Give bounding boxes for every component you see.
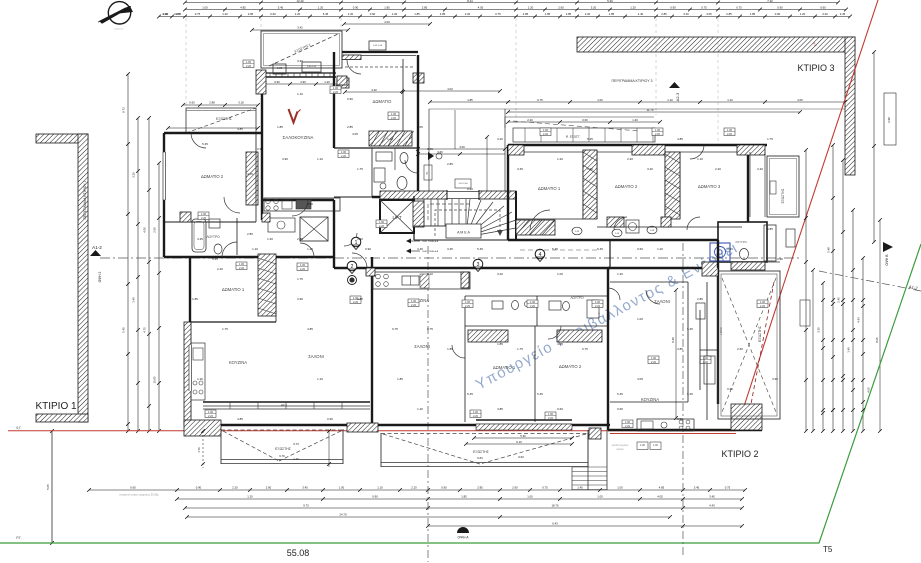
- svg-text:ΗΧ 1: ΗΧ 1: [281, 403, 288, 407]
- svg-text:2.20: 2.20: [208, 414, 214, 418]
- svg-text:1.00: 1.00: [597, 98, 603, 102]
- svg-text:0.75: 0.75: [725, 486, 731, 490]
- svg-text:1.00: 1.00: [625, 420, 631, 424]
- svg-text:5.45: 5.45: [597, 247, 603, 251]
- svg-text:2.20: 2.20: [411, 486, 417, 490]
- svg-text:4.03: 4.03: [447, 87, 453, 91]
- svg-text:LIFT: LIFT: [392, 215, 401, 220]
- svg-text:5.45: 5.45: [477, 247, 483, 251]
- svg-text:1.40: 1.40: [417, 407, 423, 411]
- svg-text:4.00: 4.00: [459, 145, 465, 149]
- svg-text:1.85: 1.85: [397, 377, 403, 381]
- svg-text:ΔΩΜΑΤΙΟ 1: ΔΩΜΑΤΙΟ 1: [222, 287, 245, 292]
- svg-text:2.20: 2.20: [465, 12, 471, 16]
- svg-text:5.45: 5.45: [202, 142, 208, 146]
- svg-text:1.05: 1.05: [640, 444, 645, 447]
- svg-text:1.00: 1.00: [239, 262, 245, 266]
- svg-text:5.45: 5.45: [278, 6, 284, 10]
- svg-text:0.60: 0.60: [270, 12, 276, 16]
- svg-text:5.45: 5.45: [617, 392, 623, 396]
- svg-text:1.85: 1.85: [384, 6, 390, 10]
- svg-text:0.90: 0.90: [163, 12, 169, 16]
- svg-text:2.60: 2.60: [153, 227, 157, 233]
- svg-text:3.45: 3.45: [709, 495, 715, 499]
- svg-text:2.85: 2.85: [247, 232, 253, 236]
- svg-text:4.85: 4.85: [357, 297, 363, 301]
- svg-text:0.75: 0.75: [542, 486, 548, 490]
- svg-text:ΔΩΜΑΤΙΟ 2: ΔΩΜΑΤΙΟ 2: [615, 184, 638, 189]
- svg-text:1.85: 1.85: [176, 12, 182, 16]
- svg-text:3.45: 3.45: [840, 12, 846, 16]
- svg-text:11.79: 11.79: [647, 108, 654, 112]
- svg-text:2.85: 2.85: [477, 486, 483, 490]
- svg-text:1.10: 1.10: [317, 377, 323, 381]
- svg-text:9.73: 9.73: [303, 504, 309, 508]
- svg-text:ΒΟΡΡΑΣ: ΒΟΡΡΑΣ: [114, 28, 124, 31]
- svg-text:είσοδος κλιμ/σιο: είσοδος κλιμ/σιο: [612, 444, 629, 447]
- svg-text:ΕΞΩΣΤΗΣ: ΕΞΩΣΤΗΣ: [758, 326, 762, 342]
- svg-text:ΕΞΩΣΤΗΣ: ΕΞΩΣΤΗΣ: [473, 450, 489, 454]
- svg-text:2.85: 2.85: [697, 297, 703, 301]
- svg-text:3.45: 3.45: [447, 247, 453, 251]
- svg-text:3.90: 3.90: [677, 417, 683, 421]
- svg-text:5.30: 5.30: [607, 0, 613, 3]
- svg-text:0.90: 0.90: [777, 6, 783, 10]
- svg-text:2.20: 2.20: [411, 303, 417, 307]
- svg-text:2.85: 2.85: [422, 6, 428, 10]
- svg-text:1.85: 1.85: [750, 12, 756, 16]
- svg-text:3.45: 3.45: [427, 147, 433, 151]
- svg-text:2.60: 2.60: [512, 486, 518, 490]
- svg-text:1.00: 1.00: [527, 495, 533, 499]
- svg-text:8.48: 8.48: [671, 337, 675, 343]
- svg-text:2.20: 2.20: [232, 486, 238, 490]
- svg-text:0.90: 0.90: [257, 147, 263, 151]
- svg-text:1.00: 1.00: [651, 356, 657, 360]
- svg-text:3.18: 3.18: [238, 101, 244, 105]
- svg-text:1.00: 1.00: [727, 128, 733, 132]
- svg-text:4.05: 4.05: [637, 377, 643, 381]
- svg-text:1.20: 1.20: [587, 167, 593, 171]
- svg-text:4.85: 4.85: [523, 12, 529, 16]
- svg-text:13.40: 13.40: [297, 0, 304, 3]
- svg-text:2.85: 2.85: [447, 162, 453, 166]
- svg-text:1.40: 1.40: [632, 118, 638, 122]
- svg-text:1.85: 1.85: [461, 495, 467, 499]
- svg-text:3.45: 3.45: [694, 486, 700, 490]
- svg-text:ΕΞΩΣΤΗΣ: ΕΞΩΣΤΗΣ: [275, 447, 291, 451]
- svg-text:4.85: 4.85: [497, 407, 503, 411]
- svg-text:3.20: 3.20: [683, 12, 689, 16]
- svg-text:0.60: 0.60: [637, 247, 643, 251]
- svg-text:1.00: 1.00: [246, 60, 252, 64]
- svg-text:1.20: 1.20: [630, 6, 636, 10]
- svg-text:Α Μ Ε Α: Α Μ Ε Α: [457, 231, 470, 235]
- svg-text:4.43: 4.43: [857, 317, 861, 323]
- svg-text:1.70: 1.70: [293, 457, 299, 461]
- svg-text:1.00: 1.00: [411, 299, 417, 303]
- svg-text:2.60: 2.60: [558, 6, 564, 10]
- svg-text:2.20: 2.20: [473, 414, 479, 418]
- svg-text:2.85: 2.85: [566, 12, 572, 16]
- svg-text:0.60: 0.60: [582, 118, 588, 122]
- svg-text:ΠΕΡΙΓΡΑΜΜΑ ΚΤΙΡΙΟΥ 1: ΠΕΡΙΓΡΑΜΜΑ ΚΤΙΡΙΟΥ 1: [83, 181, 87, 220]
- svg-text:4.43: 4.43: [709, 504, 715, 508]
- svg-text:2.20: 2.20: [217, 267, 223, 271]
- svg-text:1.00: 1.00: [543, 128, 549, 132]
- svg-text:10.85: 10.85: [153, 376, 157, 383]
- svg-text:1.85: 1.85: [277, 125, 283, 129]
- svg-text:1.05: 1.05: [277, 66, 283, 70]
- svg-text:0.60: 0.60: [370, 12, 376, 16]
- svg-text:1.00: 1.00: [557, 272, 563, 276]
- svg-text:0.90: 0.90: [670, 6, 676, 10]
- svg-text:1.20: 1.20: [324, 80, 330, 84]
- svg-text:2.20: 2.20: [595, 304, 601, 308]
- svg-text:24.70: 24.70: [340, 513, 347, 517]
- svg-text:0.60: 0.60: [727, 387, 733, 391]
- svg-text:ΔΩΜΑΤΙΟ 3: ΔΩΜΑΤΙΟ 3: [698, 184, 721, 189]
- svg-text:2.20: 2.20: [757, 167, 763, 171]
- svg-text:1.75: 1.75: [297, 277, 303, 281]
- svg-text:Ρ.Γ.: Ρ.Γ.: [16, 536, 21, 540]
- svg-text:8.05: 8.05: [875, 337, 879, 343]
- svg-text:ΟΨΗ 2: ΟΨΗ 2: [98, 272, 102, 283]
- svg-text:2.20: 2.20: [627, 157, 633, 161]
- svg-text:1.10: 1.10: [697, 157, 703, 161]
- svg-text:3.20: 3.20: [822, 12, 828, 16]
- svg-text:5.45: 5.45: [537, 392, 543, 396]
- svg-text:0.90: 0.90: [777, 257, 783, 261]
- svg-text:2.60: 2.60: [266, 486, 272, 490]
- svg-text:1.40: 1.40: [847, 347, 851, 353]
- svg-text:ΛΟΥΤΡΟ: ΛΟΥΤΡΟ: [735, 240, 747, 244]
- svg-text:ΚΟΥΖΙΝΑ: ΚΟΥΖΙΝΑ: [641, 397, 659, 402]
- svg-text:4.05: 4.05: [657, 495, 663, 499]
- svg-text:5.30: 5.30: [520, 434, 526, 438]
- svg-text:0.60: 0.60: [189, 101, 195, 105]
- svg-text:0.75: 0.75: [582, 347, 588, 351]
- svg-text:1.75: 1.75: [357, 167, 363, 171]
- svg-text:0.90: 0.90: [775, 12, 781, 16]
- svg-text:0.60: 0.60: [130, 486, 136, 490]
- svg-text:1.20: 1.20: [247, 495, 253, 499]
- svg-text:2.20: 2.20: [651, 360, 657, 364]
- svg-text:1.20: 1.20: [348, 12, 354, 16]
- svg-text:1.00: 1.00: [637, 317, 643, 321]
- svg-text:3.45: 3.45: [517, 167, 523, 171]
- svg-text:9.63: 9.63: [477, 456, 483, 460]
- svg-text:5.45: 5.45: [687, 392, 693, 396]
- svg-text:2.20: 2.20: [246, 64, 252, 68]
- svg-text:4.85: 4.85: [307, 327, 313, 331]
- svg-text:1.00: 1.00: [201, 212, 207, 216]
- svg-text:3.20: 3.20: [497, 137, 503, 141]
- svg-text:1.00: 1.00: [597, 495, 603, 499]
- svg-text:4.05: 4.05: [352, 132, 358, 136]
- svg-text:1.20: 1.20: [528, 6, 534, 10]
- svg-text:0.60: 0.60: [557, 407, 563, 411]
- svg-text:1.00: 1.00: [465, 300, 471, 304]
- svg-text:4.85: 4.85: [677, 137, 683, 141]
- svg-text:1.10: 1.10: [377, 486, 383, 490]
- svg-text:1.00: 1.00: [617, 486, 623, 490]
- svg-text:απομενον μηκος σχηματος 55.08μ: απομενον μηκος σχηματος 55.08μ: [119, 493, 159, 497]
- svg-text:2.85: 2.85: [661, 12, 667, 16]
- svg-text:2.20: 2.20: [715, 167, 721, 171]
- svg-text:2.45: 2.45: [837, 297, 841, 303]
- svg-text:1.40: 1.40: [357, 237, 363, 241]
- svg-text:2.20: 2.20: [760, 304, 766, 308]
- svg-text:3.30: 3.30: [817, 327, 821, 333]
- svg-text:1.10: 1.10: [252, 247, 258, 251]
- svg-text:ΚΤΙΡΙΟ 3: ΚΤΙΡΙΟ 3: [797, 63, 834, 73]
- svg-text:2.85: 2.85: [248, 12, 254, 16]
- svg-text:1.00: 1.00: [548, 412, 554, 416]
- svg-text:ΔΩΜΑΤΙΟ: ΔΩΜΑΤΙΟ: [373, 99, 393, 104]
- svg-text:A2-3: A2-3: [675, 92, 680, 101]
- svg-text:1.00: 1.00: [595, 300, 601, 304]
- svg-text:A1-2: A1-2: [92, 245, 102, 250]
- svg-text:1.10: 1.10: [667, 98, 673, 102]
- svg-text:1.00: 1.00: [760, 300, 766, 304]
- svg-text:9.73: 9.73: [293, 442, 299, 446]
- svg-text:1.00: 1.00: [530, 300, 536, 304]
- svg-text:0.90: 0.90: [347, 97, 353, 101]
- svg-text:3.40: 3.40: [371, 88, 377, 92]
- svg-text:1.20: 1.20: [392, 12, 398, 16]
- svg-text:5.45: 5.45: [552, 247, 558, 251]
- svg-text:1.85: 1.85: [497, 342, 503, 346]
- svg-text:5.48: 5.48: [827, 247, 831, 253]
- svg-text:2.20: 2.20: [625, 424, 631, 428]
- svg-text:4.85: 4.85: [767, 227, 773, 231]
- svg-text:5.45: 5.45: [467, 392, 473, 396]
- svg-text:1.10: 1.10: [427, 272, 433, 276]
- svg-text:2.20: 2.20: [543, 132, 549, 136]
- svg-text:1.10: 1.10: [317, 157, 323, 161]
- svg-text:4.85: 4.85: [237, 127, 243, 131]
- svg-text:0.80 0.80: 0.80 0.80: [307, 66, 317, 68]
- svg-text:0.60: 0.60: [617, 407, 623, 411]
- svg-text:1.20: 1.20: [800, 12, 806, 16]
- svg-text:3.90: 3.90: [297, 59, 303, 63]
- svg-text:0.90: 0.90: [196, 486, 202, 490]
- svg-text:0.90: 0.90: [467, 187, 473, 191]
- svg-text:1.20: 1.20: [557, 157, 563, 161]
- svg-text:4.85: 4.85: [440, 12, 446, 16]
- svg-text:1.40: 1.40: [132, 297, 136, 303]
- svg-text:7.40: 7.40: [767, 0, 773, 3]
- svg-text:0.90: 0.90: [274, 80, 280, 84]
- svg-text:4.85: 4.85: [659, 486, 665, 490]
- svg-text:6.43: 6.43: [552, 522, 558, 526]
- svg-text:1.10: 1.10: [727, 98, 733, 102]
- svg-text:1.00: 1.00: [333, 86, 339, 90]
- svg-text:55.08: 55.08: [287, 548, 310, 558]
- svg-text:4.85: 4.85: [240, 6, 246, 10]
- svg-text:1.00: 1.00: [473, 410, 479, 414]
- svg-text:0.75: 0.75: [195, 12, 201, 16]
- svg-text:3.42: 3.42: [297, 26, 303, 30]
- svg-text:ΟΨΗ ΤΟΜΗ Α-Α: ΟΨΗ ΤΟΜΗ Α-Α: [422, 240, 439, 243]
- svg-text:2.88: 2.88: [209, 101, 215, 105]
- svg-text:3.90: 3.90: [772, 377, 778, 381]
- svg-text:1.75: 1.75: [767, 137, 773, 141]
- svg-text:2.20: 2.20: [465, 304, 471, 308]
- svg-text:ΟΨΗ ΤΟΜΗ Α-Α: ΟΨΗ ΤΟΜΗ Α-Α: [422, 250, 439, 253]
- svg-text:0.75: 0.75: [495, 12, 501, 16]
- svg-text:6.10: 6.10: [516, 440, 522, 444]
- svg-text:ΕΞΩΣΤΗΣ: ΕΞΩΣΤΗΣ: [781, 189, 785, 204]
- svg-text:ΣΑΛΟΚΟΥΖΙΝΑ: ΣΑΛΟΚΟΥΖΙΝΑ: [283, 135, 314, 140]
- svg-text:4.05: 4.05: [247, 172, 253, 176]
- svg-text:5.45: 5.45: [212, 257, 218, 261]
- svg-text:1.40: 1.40: [387, 137, 393, 141]
- svg-text:0.75: 0.75: [701, 6, 707, 10]
- svg-text:1.20: 1.20: [222, 12, 228, 16]
- svg-text:2.60: 2.60: [737, 347, 743, 351]
- svg-text:1.70: 1.70: [197, 447, 201, 453]
- svg-text:5.45: 5.45: [687, 327, 693, 331]
- svg-text:ισόγειο: ισόγειο: [616, 448, 624, 451]
- svg-text:1.85: 1.85: [414, 12, 420, 16]
- svg-text:1.00: 1.00: [341, 150, 347, 154]
- svg-text:1.85: 1.85: [609, 12, 615, 16]
- svg-text:ΠΕΡΙΓΡΑΜΜΑ ΚΤΙΡΙΟΥ 3: ΠΕΡΙΓΡΑΜΜΑ ΚΤΙΡΙΟΥ 3: [611, 79, 652, 83]
- svg-text:1.85: 1.85: [192, 297, 198, 301]
- svg-text:0.90: 0.90: [372, 495, 378, 499]
- svg-text:ΚΤΙΡΙΟ 1: ΚΤΙΡΙΟ 1: [35, 401, 77, 412]
- svg-text:1.20: 1.20: [657, 247, 663, 251]
- svg-text:3.45: 3.45: [197, 237, 203, 241]
- svg-text:4.05: 4.05: [797, 98, 803, 102]
- svg-text:8.73: 8.73: [122, 107, 126, 113]
- svg-text:1.10: 1.10: [297, 92, 303, 96]
- svg-text:4.85: 4.85: [677, 347, 683, 351]
- svg-text:2.20: 2.20: [379, 224, 385, 228]
- svg-text:ΚΤΙΡΙΟ 2: ΚΤΙΡΙΟ 2: [721, 449, 758, 459]
- svg-text:1.00: 1.00: [655, 128, 661, 132]
- svg-text:ΟΨΗ Β: ΟΨΗ Β: [885, 254, 889, 266]
- svg-text:3.90: 3.90: [300, 80, 306, 84]
- svg-text:2.85: 2.85: [726, 12, 732, 16]
- svg-text:2.85: 2.85: [347, 125, 353, 129]
- svg-text:2.20: 2.20: [585, 12, 591, 16]
- svg-text:ΔΩΜΑΤΙΟ 2: ΔΩΜΑΤΙΟ 2: [201, 174, 224, 179]
- svg-text:1.10 2.40: 1.10 2.40: [458, 183, 468, 185]
- svg-text:5.45: 5.45: [122, 327, 126, 333]
- svg-text:1.00: 1.00: [391, 112, 397, 116]
- svg-text:ΔΩΜΑΤΙΟ 2: ΔΩΜΑΤΙΟ 2: [559, 364, 582, 369]
- svg-text:1.00: 1.00: [300, 263, 306, 267]
- svg-text:2.85: 2.85: [297, 237, 303, 241]
- svg-text:ΕΞΩΣΤΗΣ: ΕΞΩΣΤΗΣ: [216, 117, 232, 121]
- svg-text:1.00: 1.00: [379, 220, 385, 224]
- svg-text:2.20: 2.20: [655, 132, 661, 136]
- svg-text:4.85: 4.85: [237, 417, 243, 421]
- svg-text:2.20: 2.20: [341, 154, 347, 158]
- svg-text:1.85: 1.85: [447, 347, 453, 351]
- svg-text:4.05: 4.05: [417, 125, 423, 129]
- svg-text:ΛΟΥΤΡΟ: ΛΟΥΤΡΟ: [570, 296, 584, 300]
- svg-text:8.44: 8.44: [467, 0, 473, 3]
- svg-text:ΣΑΛΟΝΙ: ΣΑΛΟΝΙ: [414, 344, 430, 349]
- svg-text:0.90: 0.90: [441, 486, 447, 490]
- svg-text:Φ. ΕΞΩΣΤ.: Φ. ΕΞΩΣΤ.: [566, 135, 581, 139]
- svg-text:ΛΟΥΤΡΟ: ΛΟΥΤΡΟ: [206, 235, 220, 239]
- svg-text:4.50: 4.50: [143, 227, 147, 233]
- svg-text:2.20: 2.20: [530, 304, 536, 308]
- svg-text:4.75: 4.75: [143, 327, 147, 333]
- svg-text:2.20: 2.20: [239, 266, 245, 270]
- svg-text:0.90: 0.90: [307, 202, 313, 206]
- svg-text:5.45: 5.45: [323, 12, 329, 16]
- svg-text:ΔΩΜΑΤΙΟ 1: ΔΩΜΑΤΙΟ 1: [538, 186, 561, 191]
- svg-text:T5: T5: [823, 545, 833, 554]
- svg-text:2.20: 2.20: [727, 132, 733, 136]
- svg-text:0.75: 0.75: [427, 327, 433, 331]
- svg-text:1.20: 1.20: [197, 377, 203, 381]
- svg-text:0.60: 0.60: [820, 6, 826, 10]
- svg-text:0.90: 0.90: [365, 247, 371, 251]
- svg-text:2.20: 2.20: [391, 116, 397, 120]
- svg-text:1.85: 1.85: [467, 98, 473, 102]
- svg-text:1.75: 1.75: [222, 327, 228, 331]
- svg-text:3.90: 3.90: [297, 297, 303, 301]
- svg-text:1.00: 1.00: [202, 6, 208, 10]
- svg-text:ΣΑΛΟΝΙ: ΣΑΛΟΝΙ: [308, 354, 324, 359]
- svg-text:3.45: 3.45: [417, 247, 423, 251]
- svg-text:4.03: 4.03: [384, 20, 390, 24]
- svg-text:4.05: 4.05: [478, 6, 484, 10]
- svg-text:18.70: 18.70: [552, 504, 559, 508]
- svg-text:ΔΩΜΑΤΙΟ 1: ΔΩΜΑΤΙΟ 1: [493, 365, 516, 370]
- svg-text:1.40: 1.40: [577, 486, 583, 490]
- svg-text:0.75: 0.75: [392, 327, 398, 331]
- svg-text:3.45: 3.45: [302, 486, 308, 490]
- svg-text:0,Γ.: 0,Γ.: [16, 426, 21, 430]
- svg-text:1.00: 1.00: [208, 410, 214, 414]
- svg-text:2.20: 2.20: [201, 216, 207, 220]
- svg-text:4.05: 4.05: [867, 387, 871, 393]
- svg-text:4.05: 4.05: [706, 12, 712, 16]
- svg-text:1.20: 1.20: [318, 6, 324, 10]
- svg-text:1.40: 1.40: [267, 237, 273, 241]
- svg-text:0.75: 0.75: [736, 6, 742, 10]
- svg-text:ΟΨΗ Α: ΟΨΗ Α: [458, 536, 470, 540]
- svg-text:1.00: 1.00: [339, 486, 345, 490]
- svg-text:5.45: 5.45: [587, 137, 593, 141]
- svg-text:3.20: 3.20: [727, 247, 733, 251]
- svg-text:1.40: 1.40: [307, 247, 313, 251]
- svg-text:3.20: 3.20: [132, 172, 136, 178]
- svg-text:1.85: 1.85: [545, 12, 551, 16]
- svg-text:3.20: 3.20: [591, 6, 597, 10]
- svg-text:2.20: 2.20: [527, 118, 533, 122]
- svg-text:6.98: 6.98: [887, 117, 891, 123]
- svg-text:ΚΟΥΖΙΝΑ: ΚΟΥΖΙΝΑ: [229, 360, 247, 365]
- svg-text:1.75: 1.75: [517, 347, 523, 351]
- svg-text:0.90: 0.90: [353, 6, 359, 10]
- svg-text:1.20: 1.20: [295, 12, 301, 16]
- svg-text:1.05 1.00: 1.05 1.00: [373, 45, 383, 47]
- svg-text:0.90: 0.90: [327, 417, 333, 421]
- svg-text:2.20: 2.20: [300, 267, 306, 271]
- svg-text:1.20: 1.20: [617, 272, 623, 276]
- svg-text:4.05: 4.05: [557, 342, 563, 346]
- svg-text:9.70: 9.70: [279, 454, 285, 458]
